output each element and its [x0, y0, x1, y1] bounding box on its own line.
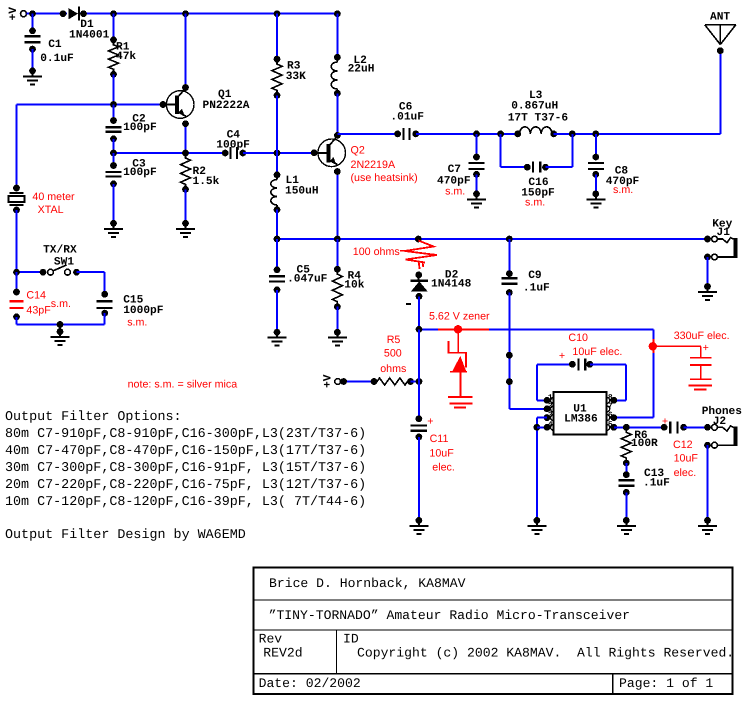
op-amp U1 LM386 [551, 392, 610, 435]
wire bottom of XTAL loop [17, 321, 105, 328]
svg-text:10uF: 10uF [429, 448, 454, 460]
svg-text:6: 6 [608, 411, 613, 420]
wire C4 to Q2 base [274, 150, 315, 157]
wire zener node down to C11 [418, 329, 420, 418]
resistor R3 33K [272, 14, 306, 153]
capacitor C13 .1uF [618, 468, 670, 520]
capacitor C11 10uF elec. [411, 415, 455, 520]
svg-text:TX/RX: TX/RX [43, 243, 77, 256]
antenna ANT [705, 12, 736, 134]
wire U1 pins 3+4 to ground [534, 414, 551, 520]
svg-text:J2: J2 [713, 416, 727, 428]
annotation 5.62 V zener (red) + zener symbol [429, 310, 490, 407]
wire amp V+ riser to pin 6 [610, 329, 653, 421]
capacitor C10 10uF elec. (pins 1-8) [537, 332, 626, 404]
capacitor C2 100pF [106, 105, 157, 154]
resistor R2 1.5k [181, 153, 220, 223]
svg-text:C12: C12 [673, 439, 693, 451]
svg-text:s.m.: s.m. [127, 316, 147, 328]
svg-text:100pF: 100pF [123, 122, 157, 134]
power symbol +V top-left [8, 7, 26, 21]
svg-text:C1: C1 [48, 39, 62, 51]
svg-text:17T T37-6: 17T T37-6 [508, 112, 569, 124]
svg-text:Date: 02/2002: Date: 02/2002 [259, 676, 361, 691]
capacitor C9 .1uF [501, 239, 550, 296]
svg-text:Output Filter Design by WA6EMD: Output Filter Design by WA6EMD [5, 528, 246, 543]
svg-text:10uF elec.: 10uF elec. [572, 346, 622, 358]
svg-text:+: + [427, 416, 433, 428]
capacitor C16 150pF parallel branch [501, 134, 573, 208]
wire top +V rail [27, 10, 68, 17]
wire J1 sleeve to ground [707, 257, 709, 287]
ground under J2 [698, 517, 717, 534]
svg-text:+: + [703, 342, 709, 354]
svg-text:R5: R5 [387, 334, 401, 346]
capacitor 330uF elec. (red) [649, 330, 730, 389]
ground under C11 [409, 517, 428, 534]
wire U1 pin5 output [610, 424, 664, 431]
ground under C3 [104, 220, 123, 237]
U1 pin numbers [548, 394, 613, 430]
ground under U1 [527, 517, 546, 534]
svg-text:22uH: 22uH [348, 64, 375, 76]
switch SW1 TX/RX [13, 243, 105, 275]
ground under C8 [586, 191, 605, 208]
svg-text:100R: 100R [631, 438, 658, 450]
capacitor C3 100pF [106, 153, 157, 223]
svg-text:.1uF: .1uF [523, 283, 550, 295]
svg-text:10uF: 10uF [674, 453, 699, 465]
svg-text:ID: ID [343, 632, 359, 647]
svg-text:1.5k: 1.5k [193, 175, 220, 188]
svg-text:40m C7-470pF,C8-470pF,C16-150p: 40m C7-470pF,C8-470pF,C16-150pF,L3(17T/T… [5, 444, 366, 459]
svg-text:Output Filter Options:: Output Filter Options: [5, 410, 182, 425]
svg-text:20m C7-220pF,C8-220pF,C16-75pF: 20m C7-220pF,C8-220pF,C16-75pF, L3(12T/T… [5, 478, 366, 493]
svg-text:150uH: 150uH [285, 185, 319, 197]
svg-text:43pF: 43pF [26, 304, 51, 316]
capacitor C5 .047uF [269, 239, 328, 332]
svg-text:3: 3 [548, 411, 553, 420]
svg-text:.047uF: .047uF [287, 274, 328, 286]
wire Q1 collector [182, 14, 189, 91]
resistor R6 100R [621, 427, 658, 474]
wire Q1 base net / crystal rail [17, 101, 164, 188]
svg-text:1000pF: 1000pF [123, 305, 164, 317]
svg-text:(use heatsink): (use heatsink) [351, 172, 418, 184]
ground under C13 [617, 517, 636, 534]
svg-text:1N4148: 1N4148 [431, 279, 472, 291]
power symbol +V mid (R5 feed) [323, 374, 378, 388]
svg-text:elec.: elec. [432, 462, 455, 474]
wire zener node to amp V+ corner [416, 326, 654, 333]
wire XTAL net to C14 [13, 272, 20, 295]
svg-text:Q2: Q2 [351, 145, 365, 157]
svg-text:SW1: SW1 [54, 257, 74, 269]
svg-text:100 ohms: 100 ohms [353, 246, 400, 258]
svg-text:J1: J1 [717, 227, 731, 239]
wire top rail after D1 [80, 10, 341, 17]
svg-text:XTAL: XTAL [38, 204, 64, 216]
svg-text:+V: +V [323, 374, 335, 388]
ground under C5 [268, 329, 287, 346]
svg-text:2: 2 [548, 402, 553, 411]
svg-text:10m C7-120pF,C8-120pF,C16-39pF: 10m C7-120pF,C8-120pF,C16-39pF, L3( 7T/T… [5, 495, 366, 510]
svg-text:elec.: elec. [674, 467, 697, 479]
capacitor C15 1000pF [97, 272, 164, 328]
svg-text:40 meter: 40 meter [32, 191, 75, 203]
wire J2 sleeve to ground [707, 445, 709, 520]
svg-text:0.1uF: 0.1uF [40, 53, 74, 65]
svg-text:4: 4 [548, 421, 553, 430]
output filter options text [5, 410, 366, 543]
svg-text:47k: 47k [116, 50, 136, 63]
annotation 100 ohms (red hand-drawn resistor) [353, 241, 437, 270]
title block table [254, 568, 735, 695]
ground under switch net [51, 325, 70, 346]
svg-text:Page: 1 of 1: Page: 1 of 1 [619, 676, 713, 691]
svg-text:100pF: 100pF [216, 140, 250, 152]
wire C6 to filter [416, 131, 521, 138]
svg-text:30m C7-300pF,C8-300pF,C16-91pF: 30m C7-300pF,C8-300pF,C16-91pF, L3(15T/T… [5, 461, 366, 476]
svg-text:2N2219A: 2N2219A [351, 159, 396, 171]
svg-text:C9: C9 [528, 270, 542, 282]
svg-text:1N4001: 1N4001 [69, 29, 110, 41]
wire D2 to zener node [418, 296, 420, 329]
svg-text:.01uF: .01uF [390, 111, 424, 123]
resistor R4 10k [332, 239, 364, 332]
ground under C1 [23, 67, 42, 84]
svg-text:+V: +V [8, 7, 20, 21]
jack J2 Phones [702, 405, 743, 449]
ground under J1 [698, 283, 717, 300]
svg-text:80m C7-910pF,C8-910pF,C16-300p: 80m C7-910pF,C8-910pF,C16-300pF,L3(23T/T… [5, 427, 366, 442]
svg-text:ANT: ANT [710, 12, 730, 24]
inductor L2 22uH [331, 14, 374, 136]
ground under R2 [176, 220, 195, 237]
resistor R1 47k [109, 14, 137, 105]
svg-text:Copyright (c) 2002 KA8MAV. Al: Copyright (c) 2002 KA8MAV. All Rights Re… [357, 646, 734, 661]
wire Q1 emitter [182, 120, 189, 153]
svg-text:100pF: 100pF [123, 167, 157, 179]
wire XTAL to switch [16, 210, 18, 272]
capacitor C14 43pF (red) [10, 289, 71, 324]
svg-text:500: 500 [384, 348, 402, 360]
wire filter output to ANT riser [554, 131, 721, 138]
svg-text:330uF elec.: 330uF elec. [674, 330, 730, 342]
svg-text:REV2d: REV2d [263, 646, 302, 661]
wire U1 pin2 dot [544, 406, 551, 413]
svg-text:”TINY-TORNADO” Amateur Radio M: ”TINY-TORNADO” Amateur Radio Micro-Trans… [269, 608, 630, 623]
svg-text:C14: C14 [26, 289, 46, 301]
wire main rail y=239 [274, 236, 711, 243]
svg-text:5: 5 [608, 421, 613, 430]
svg-text:s.m.: s.m. [525, 196, 545, 208]
svg-text:s.m.: s.m. [613, 184, 633, 196]
svg-text:ohms: ohms [380, 363, 406, 375]
transistor Q1 PN2222A [160, 88, 250, 119]
svg-text:Rev: Rev [259, 632, 283, 647]
capacitor C6 .01uF [390, 102, 424, 140]
inductor L1 150uH [271, 153, 319, 239]
svg-text:+: + [662, 416, 668, 428]
resistor R5 500 ohms [374, 334, 422, 385]
svg-text:C10: C10 [568, 332, 588, 344]
svg-text:PN2222A: PN2222A [203, 100, 250, 112]
svg-text:LM386: LM386 [564, 413, 598, 425]
svg-text:note: s.m. = silver mica: note: s.m. = silver mica [128, 378, 238, 390]
wire C9 to U1 pin2 (audio) [506, 293, 547, 409]
capacitor C4 100pF [216, 129, 277, 159]
svg-text:C7: C7 [448, 164, 461, 176]
svg-text:+: + [559, 350, 565, 362]
svg-text:10k: 10k [344, 279, 364, 292]
inductor L3 0.867uH [508, 90, 569, 137]
svg-text:5.62 V zener: 5.62 V zener [429, 310, 490, 322]
svg-text:s.m.: s.m. [445, 185, 465, 197]
crystal 40 meter XTAL [9, 185, 76, 216]
ground under C7 [467, 191, 486, 208]
svg-text:s.m.: s.m. [51, 298, 71, 310]
wire emitter/C2 net y=153 [110, 150, 229, 157]
svg-text:Brice D. Hornback, KA8MAV: Brice D. Hornback, KA8MAV [269, 576, 466, 591]
svg-text:33K: 33K [286, 71, 306, 83]
svg-text:7: 7 [608, 402, 613, 411]
capacitor C7 470pF [437, 134, 485, 197]
ground under R4 [328, 329, 347, 346]
svg-text:0.867uH: 0.867uH [511, 101, 558, 113]
wire Q2 collector to C6 [337, 133, 397, 135]
wire Q2 emitter [334, 168, 341, 239]
svg-text:.1uF: .1uF [643, 478, 670, 490]
diode D2 1N4148 (zener detector) [406, 270, 472, 304]
diode D1 1N4001 [68, 7, 109, 42]
capacitor C12 10uF elec. [661, 416, 708, 480]
jack J1 Key [704, 219, 735, 261]
transistor Q2 2N2219A [311, 132, 418, 184]
capacitor C8 470pF [588, 134, 640, 196]
capacitor C1 0.1uF [25, 14, 75, 71]
svg-text:C11: C11 [430, 433, 449, 445]
